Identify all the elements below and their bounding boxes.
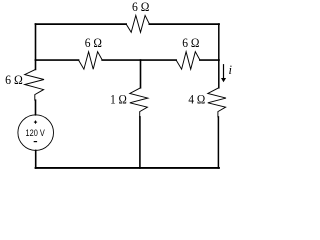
resistor R3 6ohm zigzag [176,52,200,69]
wire top-left vertical [35,24,37,60]
resistor R5 4ohm zigzag [208,88,226,117]
svg-text:120 V: 120 V [26,128,45,138]
current arrowhead [221,78,226,82]
resistor R-top 6ohm zigzag [126,15,149,32]
svg-text:6 Ω: 6 Ω [182,36,199,50]
wire right vertical [218,24,220,88]
wire top left segment [36,23,127,25]
wire left to source [35,100,37,115]
wire middle branch top [140,60,142,88]
svg-text:1 Ω: 1 Ω [110,93,127,107]
svg-text:6 Ω: 6 Ω [85,36,102,50]
resistor R4 1ohm zigzag [130,88,148,117]
resistor R1 6ohm zigzag [25,69,44,100]
wire top right segment [149,23,219,25]
label minus [34,141,37,143]
svg-text:i: i [229,63,233,77]
wire middle right segment [200,59,219,61]
wire source to bottom [35,150,37,168]
wire right bottom [217,117,219,168]
svg-text:6 Ω: 6 Ω [132,0,149,14]
svg-text:6 Ω: 6 Ω [5,73,23,87]
source V1 circle 120V [18,115,54,151]
wire bottom [36,167,220,169]
svg-text:4 Ω: 4 Ω [188,93,205,107]
current arrow i [223,65,225,79]
wire middle branch bottom [139,117,141,168]
wire middle center segment [102,59,176,61]
wire left stub below junction [35,60,37,69]
label plus [34,121,37,124]
resistor R2 6ohm zigzag [79,52,103,69]
wire middle left segment [36,59,79,61]
